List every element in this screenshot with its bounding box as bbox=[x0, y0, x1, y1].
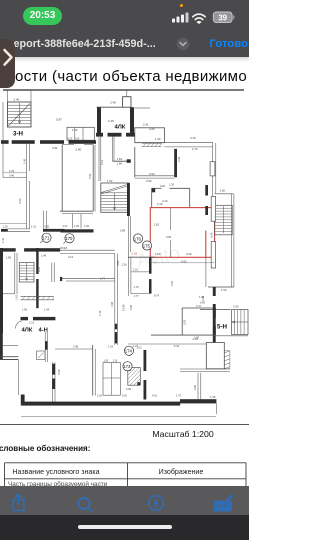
room 2.80 top bbox=[135, 128, 165, 143]
svg-text:5-Н: 5-Н bbox=[217, 324, 228, 331]
svg-text:4.02: 4.02 bbox=[152, 395, 157, 398]
svg-text:1.50: 1.50 bbox=[221, 288, 227, 292]
svg-text:2.20: 2.20 bbox=[97, 395, 102, 398]
svg-text:1.42: 1.42 bbox=[1, 237, 5, 243]
svg-text:1.77: 1.77 bbox=[134, 294, 140, 298]
closet row bbox=[67, 127, 94, 140]
battery bbox=[213, 12, 232, 23]
highlighted (sold) part: red outline bbox=[150, 208, 214, 258]
svg-text:1.86: 1.86 bbox=[6, 255, 12, 259]
center staircase bbox=[101, 183, 129, 212]
WC cluster bbox=[103, 363, 120, 396]
svg-text:2.48: 2.48 bbox=[73, 345, 79, 349]
svg-text:1.45: 1.45 bbox=[23, 158, 27, 164]
svg-text:2.19: 2.19 bbox=[68, 255, 74, 259]
room circles 174 173 bbox=[123, 346, 134, 371]
wall x26.5 double bbox=[26, 144, 28, 229]
bottom-left outer step bbox=[0, 333, 3, 360]
svg-text:1.36: 1.36 bbox=[210, 395, 216, 399]
svg-text:15/18: 15/18 bbox=[60, 246, 67, 250]
share icon bbox=[13, 494, 24, 510]
middle lower walls bbox=[55, 348, 93, 350]
inner wall x14.5 bbox=[14, 253, 16, 294]
svg-text:170: 170 bbox=[65, 236, 73, 241]
center stairs upper room bbox=[98, 137, 100, 181]
left outer wall lower bbox=[0, 248, 3, 333]
svg-text:175: 175 bbox=[143, 243, 151, 248]
svg-text:171: 171 bbox=[42, 236, 50, 241]
bottom outer wall bbox=[21, 402, 180, 406]
svg-text:0.31: 0.31 bbox=[45, 224, 51, 228]
door arc bbox=[15, 321, 21, 329]
small room left bbox=[131, 271, 149, 273]
svg-text:5.90: 5.90 bbox=[57, 369, 61, 375]
svg-text:2.80: 2.80 bbox=[76, 148, 82, 152]
svg-text:5.43: 5.43 bbox=[174, 344, 180, 348]
svg-text:1.00: 1.00 bbox=[74, 224, 80, 228]
svg-text:4.93: 4.93 bbox=[181, 260, 187, 264]
svg-text:174: 174 bbox=[125, 349, 133, 354]
inner room bottom-right of big room bbox=[181, 308, 183, 335]
svg-text:2.79: 2.79 bbox=[192, 147, 198, 151]
svg-text:176: 176 bbox=[134, 236, 142, 241]
svg-text:4.50: 4.50 bbox=[170, 280, 174, 286]
svg-text:1.10: 1.10 bbox=[113, 359, 118, 362]
4LK entry room pilasters bbox=[97, 107, 134, 133]
bottom home bar bbox=[0, 515, 249, 540]
svg-text:2.81: 2.81 bbox=[177, 156, 181, 162]
svg-text:1.03: 1.03 bbox=[108, 345, 114, 349]
5-N unit bbox=[200, 309, 231, 311]
svg-text:Изображение: Изображение bbox=[159, 468, 204, 476]
svg-text:4.43: 4.43 bbox=[18, 198, 22, 204]
svg-text:1.47: 1.47 bbox=[63, 224, 69, 228]
done button bbox=[203, 38, 248, 50]
svg-text:1.44: 1.44 bbox=[44, 307, 50, 311]
dim line with arrows under red room bbox=[150, 262, 214, 264]
svg-text:5.91: 5.91 bbox=[88, 173, 92, 179]
lower unit top wall y248 bbox=[0, 248, 60, 251]
svg-text:0.90: 0.90 bbox=[166, 235, 172, 239]
svg-text:1.50: 1.50 bbox=[84, 224, 90, 228]
svg-text:2.40: 2.40 bbox=[14, 98, 20, 102]
room walls from red area down bbox=[149, 257, 152, 294]
nav bar: filename bbox=[14, 38, 176, 51]
svg-text:5.87: 5.87 bbox=[56, 118, 62, 122]
svg-text:Название условного знака: Название условного знака bbox=[12, 468, 99, 476]
svg-text:1.60: 1.60 bbox=[155, 252, 161, 256]
svg-text:2.84: 2.84 bbox=[52, 146, 58, 150]
status icons svg bbox=[0, 0, 249, 30]
building top outline bbox=[3, 89, 244, 91]
time pill bbox=[23, 7, 62, 25]
hatch band y297 bbox=[21, 295, 55, 297]
svg-text:0.20: 0.20 bbox=[122, 395, 127, 398]
svg-text:1.16: 1.16 bbox=[133, 268, 139, 272]
front wall band A (left unit) bbox=[1, 140, 96, 144]
svg-text:3.90: 3.90 bbox=[146, 179, 152, 183]
double wall y278.7 bbox=[60, 278, 115, 280]
status bar + nav bar chrome bbox=[0, 0, 249, 57]
markup circle icon bbox=[149, 496, 164, 511]
svg-text:0.40: 0.40 bbox=[9, 174, 15, 178]
svg-text:3.29: 3.29 bbox=[186, 252, 192, 256]
hatched shaft bbox=[128, 368, 141, 386]
white document page bbox=[0, 57, 249, 486]
svg-text:1.30: 1.30 bbox=[155, 137, 161, 141]
svg-text:1.84: 1.84 bbox=[117, 157, 123, 161]
svg-text:1.20: 1.20 bbox=[3, 224, 9, 228]
svg-text:1.90: 1.90 bbox=[22, 307, 28, 311]
svg-text:1.62: 1.62 bbox=[15, 294, 19, 300]
interior wall in red room bbox=[170, 208, 172, 230]
search icon bbox=[78, 498, 91, 511]
svg-text:1.30: 1.30 bbox=[169, 183, 175, 187]
svg-text:2.20: 2.20 bbox=[162, 199, 168, 203]
svg-text:3-Н: 3-Н bbox=[13, 131, 24, 138]
svg-text:13.46: 13.46 bbox=[122, 304, 126, 311]
svg-text:8.79: 8.79 bbox=[154, 294, 160, 298]
left outer wall bbox=[2, 102, 4, 143]
svg-text:1.26: 1.26 bbox=[122, 263, 128, 267]
floor plan drawing bbox=[0, 0, 249, 540]
right stair 2 bbox=[232, 310, 249, 335]
svg-text:2.41: 2.41 bbox=[143, 123, 149, 127]
corridor double wall bbox=[135, 142, 213, 144]
svg-text:1.47: 1.47 bbox=[176, 395, 181, 398]
svg-text:3.30: 3.30 bbox=[233, 305, 239, 309]
legend heading bbox=[0, 444, 90, 453]
svg-text:3.90: 3.90 bbox=[149, 172, 155, 176]
svg-text:0.88: 0.88 bbox=[120, 229, 126, 233]
svg-text:2.20: 2.20 bbox=[157, 202, 163, 206]
floating page-corner back button bbox=[0, 39, 15, 88]
bottom toolbar bbox=[0, 486, 249, 515]
center-right bottom rooms bbox=[128, 343, 206, 345]
svg-text:2.20: 2.20 bbox=[132, 251, 138, 255]
svg-text:1.50: 1.50 bbox=[220, 189, 226, 193]
svg-text:1.22: 1.22 bbox=[133, 344, 139, 348]
svg-text:1.34: 1.34 bbox=[199, 295, 205, 299]
svg-text:2.63: 2.63 bbox=[183, 319, 187, 325]
svg-text:2.47: 2.47 bbox=[196, 304, 202, 308]
room number circles 171 170 bbox=[42, 233, 74, 243]
wall x43-47 bbox=[43, 211, 45, 229]
svg-text:4.82: 4.82 bbox=[129, 304, 133, 310]
svg-text:2.81: 2.81 bbox=[37, 266, 41, 272]
svg-text:1.98: 1.98 bbox=[110, 301, 114, 307]
svg-text:1.86: 1.86 bbox=[117, 162, 123, 166]
roof shaft bbox=[123, 97, 131, 108]
chevron circle bbox=[176, 37, 190, 51]
room bottom + WC row bbox=[60, 210, 93, 212]
svg-text:0.60: 0.60 bbox=[193, 384, 197, 390]
svg-text:4ЛК: 4ЛК bbox=[22, 328, 33, 334]
svg-text:7.36: 7.36 bbox=[98, 310, 102, 316]
band above 4LK 4-N labels bbox=[21, 317, 56, 320]
svg-text:4-Н: 4-Н bbox=[39, 328, 48, 334]
stair 3 small bbox=[19, 263, 34, 283]
band across y229 bbox=[1, 229, 94, 233]
corridor wall x143.5 lower bbox=[144, 350, 147, 400]
signature field icon bbox=[214, 494, 235, 512]
svg-text:2.31: 2.31 bbox=[29, 320, 35, 324]
svg-text:4.12: 4.12 bbox=[100, 159, 104, 165]
legend table bbox=[0, 455, 249, 486]
svg-text:4.10: 4.10 bbox=[190, 136, 196, 140]
stairwell top-left bbox=[8, 102, 32, 127]
svg-text:2.45: 2.45 bbox=[108, 119, 114, 123]
right stair 1 bbox=[215, 194, 234, 235]
scale line + text bbox=[0, 424, 249, 425]
svg-text:1.52: 1.52 bbox=[107, 179, 113, 183]
stair hall right side bbox=[231, 194, 233, 287]
right-center room bbox=[134, 147, 136, 177]
front wall band B (middle unit) bbox=[96, 133, 135, 137]
svg-text:4.36: 4.36 bbox=[210, 232, 214, 238]
svg-text:2.40: 2.40 bbox=[194, 336, 200, 340]
svg-text:1.31: 1.31 bbox=[31, 224, 37, 228]
svg-text:1.74: 1.74 bbox=[100, 276, 106, 280]
svg-text:2.48: 2.48 bbox=[110, 100, 116, 104]
svg-text:173: 173 bbox=[123, 364, 131, 369]
svg-text:2.60: 2.60 bbox=[72, 128, 78, 132]
document heading bbox=[15, 68, 255, 85]
wifi bbox=[193, 14, 205, 22]
svg-text:1.62: 1.62 bbox=[154, 222, 160, 226]
wall x36-38.5 bbox=[36, 248, 38, 308]
svg-text:0.20: 0.20 bbox=[160, 184, 166, 188]
svg-text:1.48: 1.48 bbox=[41, 253, 47, 257]
hall below, small room walls bbox=[152, 187, 162, 189]
svg-text:1.70: 1.70 bbox=[134, 285, 140, 289]
mid-left room walls bbox=[2, 143, 4, 178]
svg-text:4ЛК: 4ЛК bbox=[115, 124, 126, 130]
signal bars bbox=[172, 13, 189, 23]
right corridor wall bbox=[212, 143, 214, 196]
right bottom rooms bbox=[206, 343, 224, 369]
svg-text:0.98: 0.98 bbox=[116, 260, 120, 266]
room circles 176 175 bbox=[133, 234, 151, 250]
svg-text:1.63: 1.63 bbox=[104, 359, 109, 362]
svg-text:2.33: 2.33 bbox=[9, 169, 15, 173]
svg-text:4.60: 4.60 bbox=[126, 387, 132, 391]
corridor wall x114.8 bbox=[114, 253, 116, 345]
mic dot bbox=[180, 4, 183, 7]
